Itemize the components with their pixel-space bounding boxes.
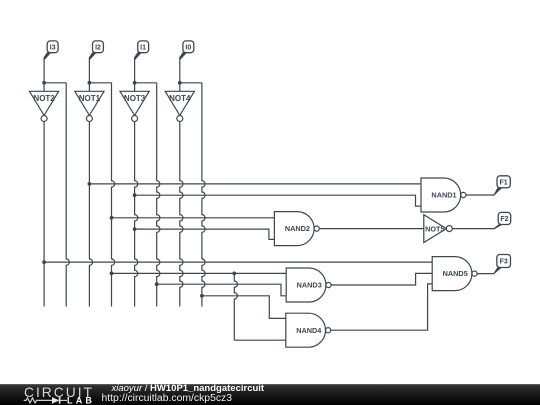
nand gate NAND1 xyxy=(421,178,466,212)
node row6 tap on I2 branch xyxy=(110,272,114,276)
wire NOT4 output vertical column xyxy=(180,122,183,307)
nand gate NAND5 xyxy=(432,257,477,291)
output flag F1 xyxy=(494,176,510,196)
wire I1 flag to NOT gate input xyxy=(134,58,136,92)
wire I1 branch to column xyxy=(135,82,157,84)
wire I1 branch to NAND3 input B (row 7 with jog) xyxy=(157,284,287,296)
wire NOT3 output vertical column xyxy=(135,122,138,307)
svg-text:I0: I0 xyxy=(185,44,191,51)
node I1 junction xyxy=(133,81,137,85)
wire I0 flag to NOT gate input xyxy=(179,58,181,92)
svg-text:NOT1: NOT1 xyxy=(79,94,101,103)
nand gate NAND3 xyxy=(286,268,331,302)
wire I3 flag to NOT gate input xyxy=(43,58,45,92)
wire NOT5 output to F2 flag xyxy=(452,228,495,230)
wire I2 uninverted vertical column xyxy=(112,83,115,307)
wire I2 flag to NOT gate input xyxy=(88,58,90,92)
wire I0 branch to column xyxy=(180,82,202,84)
wire NAND5 output to F3 flag xyxy=(477,273,494,275)
node row8 tap on I0 branch xyxy=(200,294,204,298)
svg-text:I2: I2 xyxy=(95,44,101,51)
node tap junction on row 6 xyxy=(232,272,236,276)
wire NAND2 output to NOT5 input xyxy=(319,228,424,230)
logo resistor squiggle and diode xyxy=(24,398,52,403)
svg-text:F2: F2 xyxy=(500,216,508,223)
wire I0 branch to NAND4 input A (row 8 with jog) xyxy=(202,296,286,319)
output flag F3 xyxy=(494,255,511,275)
wire I0 uninverted vertical column xyxy=(202,83,205,307)
node I3 junction xyxy=(42,81,46,85)
wire NAND1 output to F1 flag xyxy=(466,194,494,196)
nand gate NAND4 xyxy=(286,313,331,347)
svg-text:NOT5: NOT5 xyxy=(425,224,444,233)
wire NOT3 output to NAND2 input B (row 4 with jog) xyxy=(135,229,275,239)
wire NAND4 output to NAND5 input C xyxy=(331,284,433,330)
wire I3 branch to column xyxy=(44,82,66,84)
node row4 tap on NOT3 output xyxy=(133,227,137,231)
wire NOT3 output to NAND1 input B (row 2 with jog) xyxy=(135,195,421,206)
wire I3 uninverted vertical column xyxy=(66,83,69,307)
svg-text:NAND2: NAND2 xyxy=(285,224,310,233)
svg-text:F1: F1 xyxy=(500,179,508,186)
node row1 tap on NOT1 output xyxy=(88,182,92,186)
wire NOT2 output to NAND5 input A (row 5) xyxy=(44,261,432,263)
svg-text:NAND3: NAND3 xyxy=(297,281,322,290)
input flag I0 xyxy=(179,41,194,60)
input flag I3 xyxy=(44,41,59,60)
svg-text:NOT2: NOT2 xyxy=(33,94,55,103)
svg-text:LAB: LAB xyxy=(67,395,95,405)
node row7 tap on I1 branch xyxy=(155,282,159,286)
svg-text:NOT3: NOT3 xyxy=(124,94,146,103)
svg-text:NOT4: NOT4 xyxy=(169,94,191,103)
wire NOT1 output vertical column xyxy=(89,122,92,307)
footer url text xyxy=(102,393,233,405)
inverter NOT3 xyxy=(120,91,149,121)
svg-text:NAND4: NAND4 xyxy=(296,326,322,335)
footer bar xyxy=(0,384,540,405)
svg-text:I1: I1 xyxy=(140,44,146,51)
wire tap horizontal into NAND4 input B xyxy=(234,339,285,341)
wire NOT1 output to NAND1 input A (row 1) xyxy=(89,183,421,185)
input flag I1 xyxy=(134,41,149,60)
node I2 junction xyxy=(88,81,92,85)
wire NAND3 output to NAND5 input B xyxy=(331,273,432,285)
wire I2 branch to NAND3 input A (row 6) xyxy=(112,272,287,274)
node row5 tap on NOT2 output xyxy=(42,260,46,264)
node row2 tap on NOT3 output xyxy=(133,193,137,197)
inverter NOT5 xyxy=(424,215,453,243)
inverter NOT1 xyxy=(75,91,104,121)
CircuitLab logo xyxy=(20,384,130,405)
input flag I2 xyxy=(89,41,104,60)
node row3 tap on I2 branch xyxy=(110,216,114,220)
wire I2 branch to NAND2 input A (row 3) xyxy=(112,217,275,219)
node I0 junction xyxy=(178,81,182,85)
svg-text:F3: F3 xyxy=(500,259,508,266)
svg-text:NAND5: NAND5 xyxy=(443,269,468,278)
wire I2 branch to column xyxy=(89,82,111,84)
inverter NOT4 xyxy=(165,91,194,121)
wire row6 tap down to NAND4 input B xyxy=(234,273,237,340)
svg-text:NAND1: NAND1 xyxy=(431,191,456,200)
wire NOT2 output vertical column xyxy=(43,122,45,307)
wire I1 uninverted vertical column xyxy=(157,83,160,307)
nand gate NAND2 xyxy=(274,212,319,246)
inverter NOT2 xyxy=(30,91,59,121)
output flag F2 xyxy=(494,212,510,229)
svg-text:I3: I3 xyxy=(50,44,56,51)
footer title text xyxy=(112,383,265,395)
